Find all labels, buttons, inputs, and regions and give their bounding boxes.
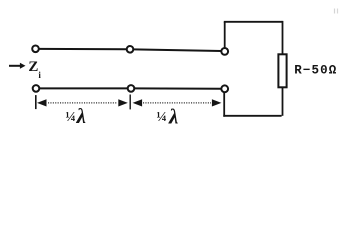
dimension arrow mid-left (points right) bbox=[118, 99, 128, 106]
wire riser from top-right terminal bbox=[224, 22, 226, 48]
label quarter-wavelength 2 bbox=[156, 105, 178, 129]
svg-text:R−50Ω: R−50Ω bbox=[294, 63, 337, 77]
terminal top-left bbox=[32, 46, 39, 53]
wire right vertical upper lead bbox=[282, 21, 284, 56]
wire right vertical lower lead bbox=[282, 87, 284, 116]
wire bottom line right segment bbox=[134, 87, 221, 89]
terminal top-right bbox=[221, 48, 228, 55]
terminal bottom-right bbox=[221, 85, 228, 92]
terminal bottom-middle bbox=[128, 85, 135, 92]
label quarter-wavelength 1 bbox=[65, 104, 86, 128]
wire drop from bottom-right terminal bbox=[223, 92, 225, 117]
svg-text:λ: λ bbox=[168, 105, 178, 129]
wire top horizontal to load bbox=[224, 21, 283, 23]
svg-text:i: i bbox=[38, 70, 41, 80]
wire top line right segment bbox=[134, 49, 222, 51]
wire bottom line left segment bbox=[39, 87, 127, 89]
dimension dotted line section 1 bbox=[48, 102, 118, 104]
wire bottom horizontal return bbox=[223, 115, 281, 117]
dimension tick middle bbox=[129, 95, 131, 110]
dimension arrow mid-right (points left) bbox=[133, 99, 143, 106]
terminal bottom-left bbox=[33, 85, 40, 92]
resistor R=50Ω body bbox=[278, 54, 286, 87]
svg-text:¼: ¼ bbox=[156, 110, 167, 125]
dimension arrow right (points right) bbox=[212, 99, 222, 106]
scan speck top-right bbox=[334, 9, 336, 14]
terminal top-middle bbox=[127, 46, 134, 53]
svg-text:Z: Z bbox=[28, 59, 38, 75]
dimension tick left bbox=[35, 95, 37, 109]
wire top line left segment bbox=[39, 48, 127, 50]
node Zi label bbox=[28, 59, 41, 80]
svg-text:λ: λ bbox=[76, 104, 86, 128]
dimension dotted line section 2 bbox=[143, 102, 211, 104]
dimension arrow left (points left) bbox=[37, 99, 47, 106]
input impedance arrow bbox=[9, 63, 26, 69]
svg-text:¼: ¼ bbox=[65, 110, 76, 125]
scan speck top-right 2 bbox=[337, 9, 339, 14]
